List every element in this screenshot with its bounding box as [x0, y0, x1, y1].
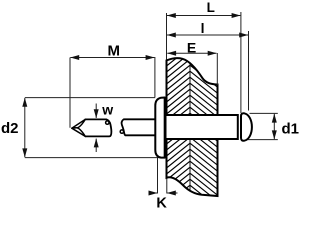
- upper fin: [72, 119, 86, 128]
- svg-text:K: K: [156, 195, 167, 211]
- plate block (two hatched plates): [160, 47, 225, 216]
- w bottom arrow: [95, 139, 97, 152]
- svg-text:d1: d1: [282, 120, 300, 137]
- d1 top ext: [250, 112, 278, 114]
- extension line right L: [240, 12, 242, 113]
- rivet head dome: [155, 98, 165, 158]
- w top arrow: [95, 104, 97, 119]
- d1 dim: [273, 114, 275, 139]
- d2 dim: [24, 98, 26, 157]
- E right ext: [216, 53, 218, 85]
- plate outline: [167, 58, 218, 196]
- svg-text:w: w: [101, 101, 113, 117]
- extension line right l: [248, 31, 250, 111]
- tip body with break curl at right: [85, 119, 111, 136]
- extension line left of L l E: [166, 13, 168, 60]
- d2 top ext: [25, 97, 155, 99]
- joint line between plates: [189, 47, 191, 213]
- left plate hatching /: [167, 47, 191, 216]
- L dim: [167, 15, 240, 17]
- sleeve: [166, 115, 238, 139]
- K right arrow: [167, 192, 178, 194]
- svg-text:M: M: [107, 42, 120, 59]
- mandrel ball end: [241, 113, 252, 140]
- mandrel tip piece: [72, 119, 112, 136]
- E dim: [167, 52, 216, 54]
- mandrel rod piece: [120, 119, 155, 135]
- M left ext: [69, 58, 71, 128]
- d1 bottom ext: [242, 139, 278, 141]
- lower fin: [72, 128, 86, 137]
- K right ext: [166, 179, 168, 194]
- l dim: [167, 34, 248, 36]
- K left ext: [157, 157, 159, 194]
- svg-text:d2: d2: [1, 120, 19, 137]
- K left arrow: [149, 192, 158, 194]
- svg-text:L: L: [207, 0, 215, 15]
- svg-text:E: E: [187, 39, 196, 55]
- M right ext: [154, 57, 156, 97]
- dimension lines (thin): [25, 12, 278, 194]
- M dim: [70, 57, 154, 59]
- svg-text:l: l: [201, 20, 205, 36]
- d2 bottom ext: [25, 157, 161, 159]
- right plate hatching \: [190, 47, 218, 213]
